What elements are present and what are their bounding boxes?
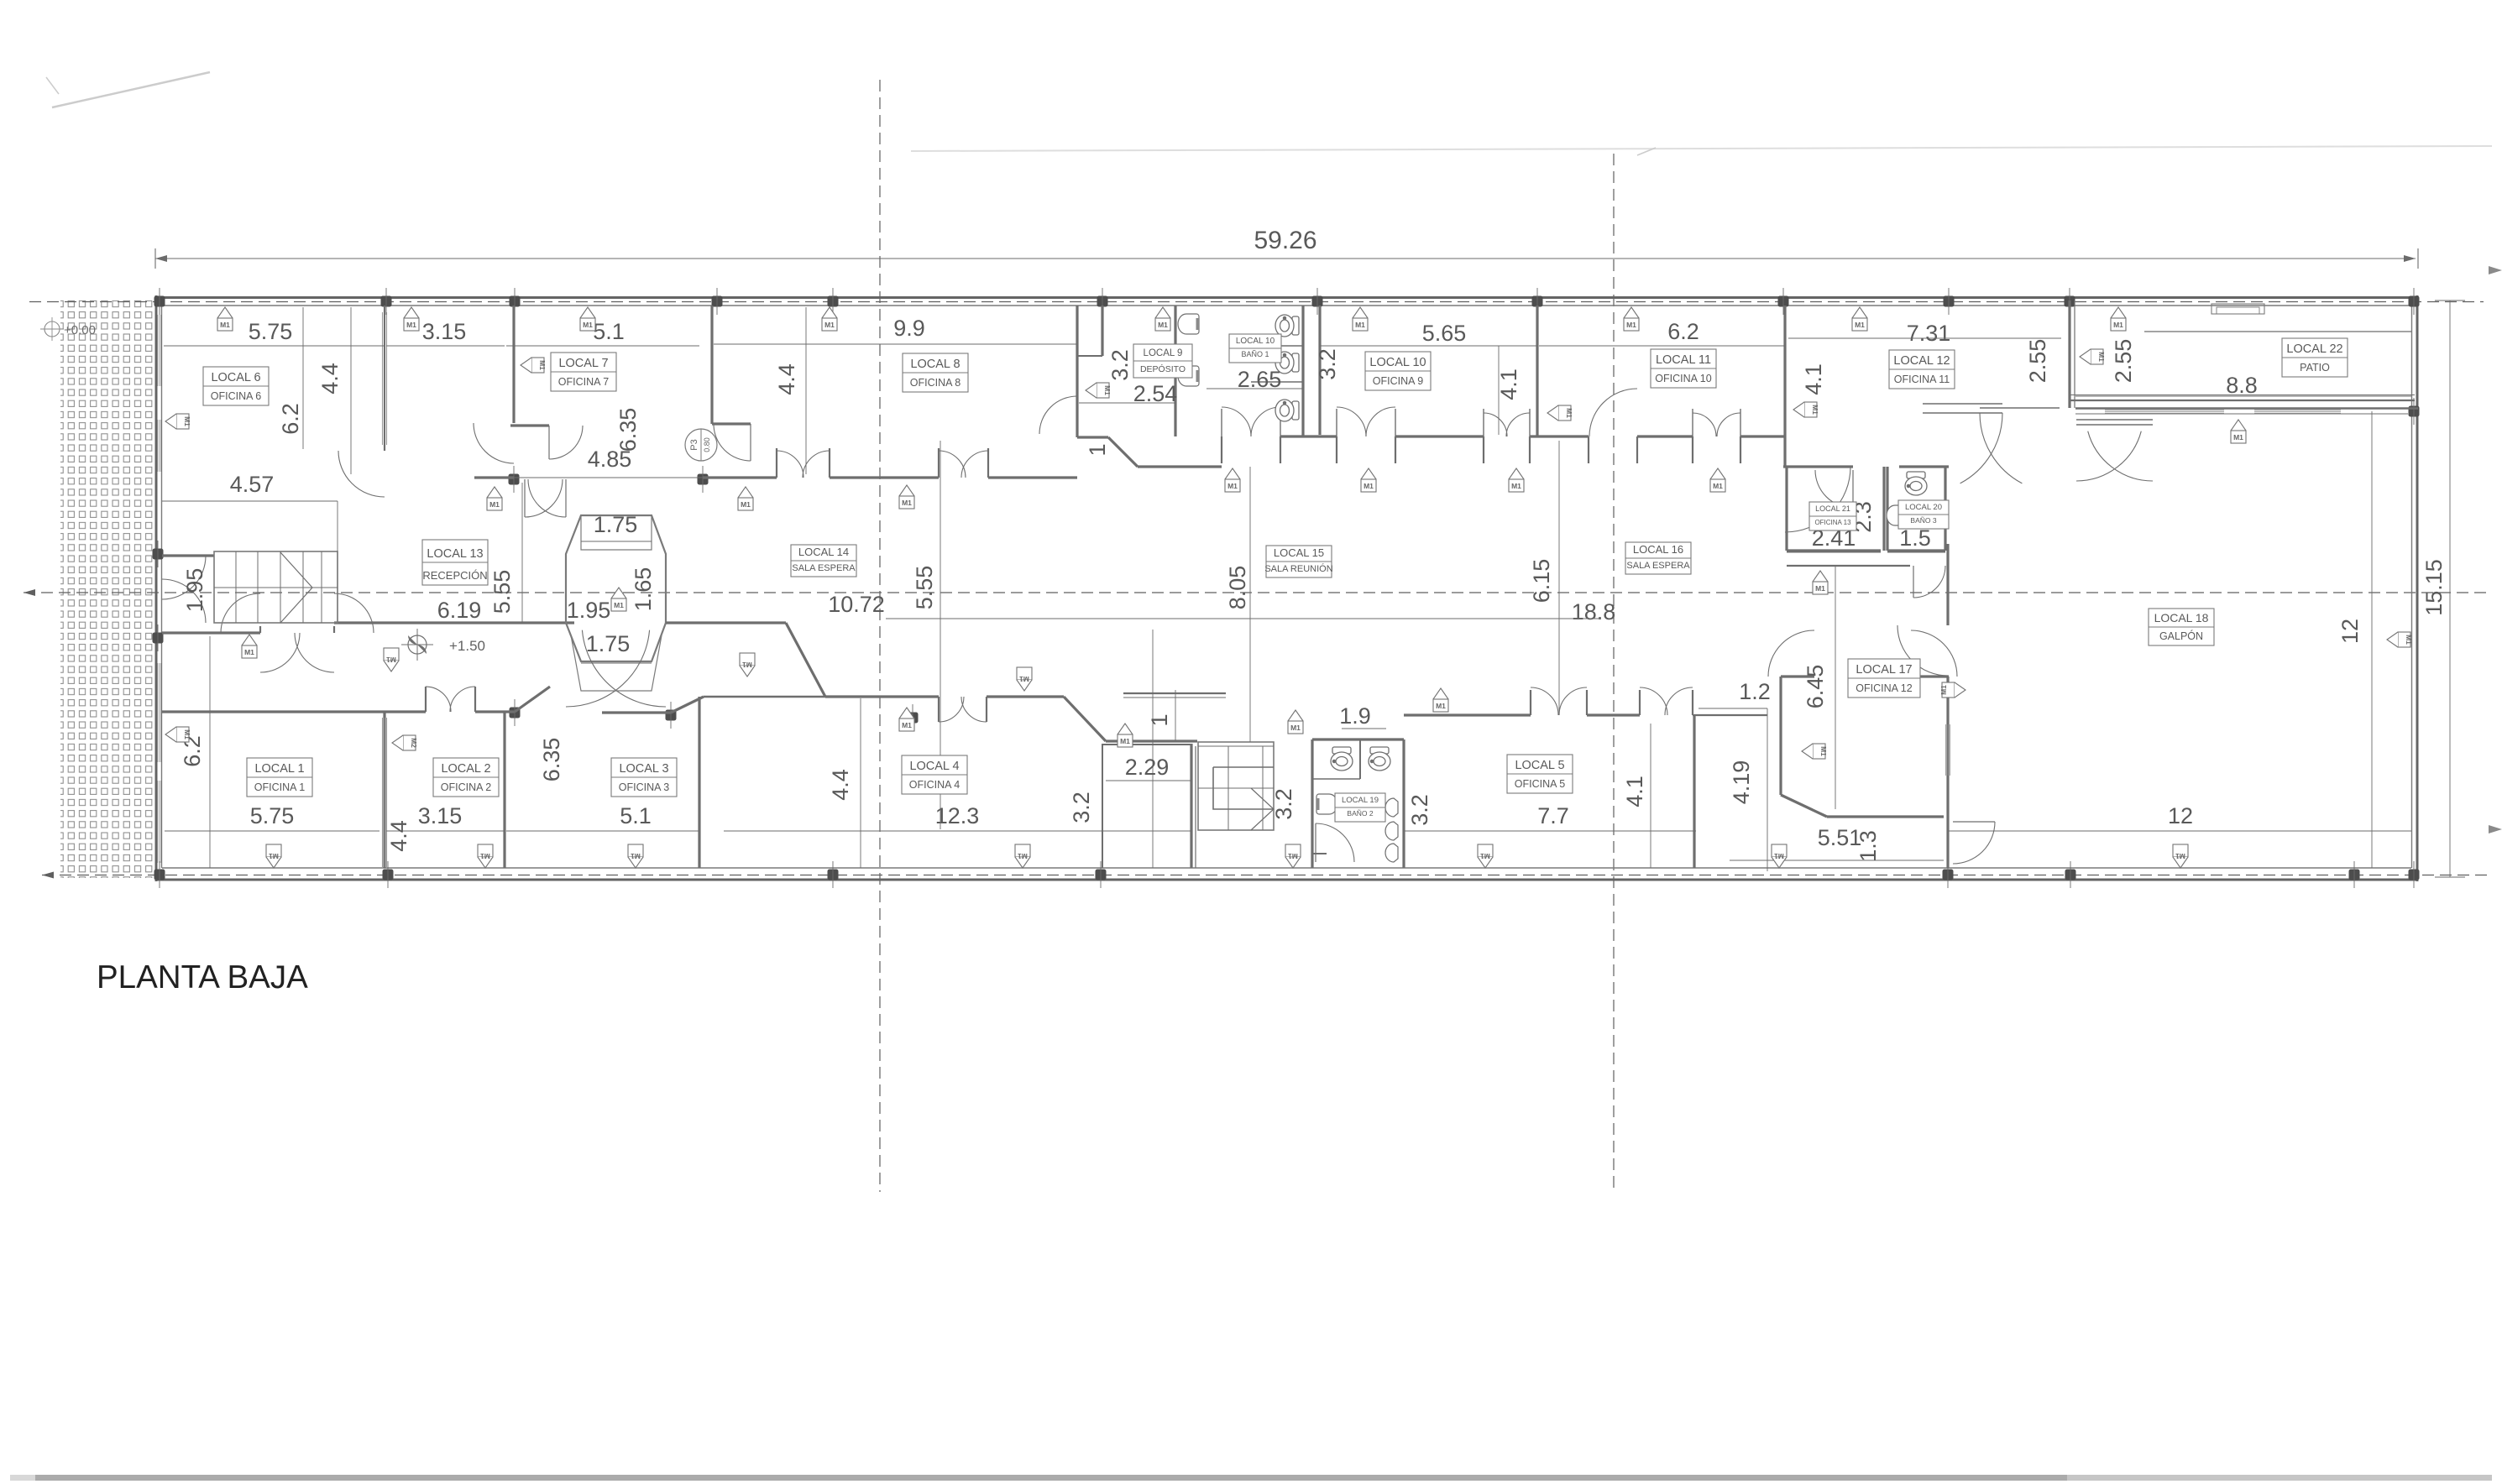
- svg-text:OFICINA 10: OFICINA 10: [1655, 373, 1711, 384]
- svg-text:OFICINA 9: OFICINA 9: [1373, 375, 1423, 387]
- svg-text:M1: M1: [1565, 408, 1573, 418]
- dim 18.8 line: [886, 618, 1600, 619]
- faint horizontal scuff line top-right: [911, 146, 2492, 151]
- svg-text:M1: M1: [183, 729, 191, 739]
- svg-text:4.57: 4.57: [230, 472, 275, 497]
- wall LOCAL 1 / LOCAL 2 with glazed double door: [383, 712, 385, 868]
- svg-text:M1: M1: [902, 721, 912, 729]
- dim ext line 6.2 bottom left: [209, 636, 211, 868]
- svg-text:4.4: 4.4: [828, 769, 853, 801]
- LOCAL 3 top wall: [704, 696, 825, 698]
- bano 1 toilets: [1275, 315, 1299, 337]
- wall LOCAL 3 / LOCAL 4: [698, 697, 700, 868]
- room label LOCAL 21 OFICINA 13: [1809, 502, 1856, 530]
- svg-text:4.85: 4.85: [588, 447, 632, 472]
- svg-text:M1: M1: [1774, 852, 1784, 860]
- door arcs corridor north wall: [1222, 407, 1251, 436]
- svg-text:7.7: 7.7: [1537, 803, 1569, 828]
- dim ext line 6.2 left top: [302, 307, 304, 449]
- svg-text:M1: M1: [489, 500, 500, 509]
- svg-text:OFICINA 11: OFICINA 11: [1894, 374, 1950, 385]
- bano1 shaft wall: [1318, 306, 1321, 435]
- room label LOCAL 5 OFICINA 5: [1507, 755, 1573, 793]
- room label LOCAL 6 OFICINA 6: [203, 367, 269, 405]
- room label LOCAL 3 OFICINA 3: [611, 758, 677, 797]
- dim ext line 4.4 left: [350, 307, 352, 474]
- dim line 4.85 along corridor: [514, 477, 703, 478]
- svg-text:M1: M1: [244, 648, 254, 656]
- svg-text:5.55: 5.55: [489, 570, 515, 614]
- svg-text:LOCAL 7: LOCAL 7: [558, 357, 608, 370]
- dim 5.51 line: [1730, 860, 1944, 861]
- diagonal wall jog to vestibule: [1064, 697, 1106, 741]
- door arcs strip entry to reception: [525, 479, 563, 517]
- vestibule right wall: [1190, 744, 1192, 868]
- svg-text:LOCAL 12: LOCAL 12: [1893, 354, 1950, 368]
- svg-text:0.80: 0.80: [703, 437, 711, 452]
- svg-text:LOCAL 10: LOCAL 10: [1369, 356, 1426, 369]
- svg-text:LOCAL 14: LOCAL 14: [798, 546, 849, 558]
- diagonal jog to LOCAL 3: [671, 697, 704, 713]
- entry door arcs at left wall: [162, 556, 206, 599]
- svg-text:M1: M1: [480, 852, 490, 860]
- room label LOCAL 18 GALPON: [2149, 609, 2214, 645]
- dim 15.15 line: [2449, 300, 2451, 877]
- dim line 8.05 vertical: [1152, 630, 1154, 868]
- wall from LOCAL17 down to bottom wall: [1946, 822, 1949, 868]
- corridor stub wall 1.2: [1693, 714, 1767, 716]
- svg-text:M1: M1: [2113, 321, 2123, 329]
- svg-text:M1: M1: [1511, 482, 1521, 490]
- svg-text:4.4: 4.4: [317, 363, 343, 395]
- door markers M1 west corridor strip: [487, 487, 502, 498]
- dim 4.19 line: [1767, 708, 1768, 871]
- svg-text:OFICINA 1: OFICINA 1: [254, 781, 305, 793]
- svg-text:M1: M1: [1290, 724, 1301, 732]
- LOCAL 17 chamfer: [1781, 795, 1827, 817]
- svg-text:LOCAL 19: LOCAL 19: [1342, 796, 1379, 805]
- svg-text:LOCAL 1: LOCAL 1: [254, 762, 304, 776]
- dim 2.54 line: [1079, 402, 1175, 404]
- svg-text:6.35: 6.35: [615, 408, 641, 452]
- stair 1 direction arrow: [280, 552, 312, 623]
- svg-text:1: 1: [1085, 443, 1110, 456]
- svg-text:5.75: 5.75: [249, 319, 293, 344]
- svg-text:LOCAL 11: LOCAL 11: [1656, 353, 1711, 367]
- svg-text:M1: M1: [1811, 405, 1819, 415]
- stair 1 block: [214, 551, 338, 623]
- corridor south wall at LOCAL 3/4: [825, 695, 939, 698]
- LOCAL 21 walls: [1785, 467, 1788, 551]
- svg-text:OFICINA 12: OFICINA 12: [1856, 682, 1912, 694]
- wall between LOCAL 6 and room 3.15 (glazed): [384, 306, 385, 451]
- svg-text:M1: M1: [824, 321, 835, 329]
- door arcs LOCAL 1/2 entries: [426, 687, 451, 712]
- bano 2 lower jamb: [1312, 853, 1327, 854]
- svg-text:+0.00: +0.00: [64, 323, 96, 337]
- door arcs into LOCAL 4: [939, 697, 964, 722]
- svg-text:OFICINA 2: OFICINA 2: [441, 781, 491, 793]
- svg-text:M1: M1: [220, 321, 230, 329]
- room label LOCAL 17 OFICINA 12: [1848, 659, 1920, 698]
- window marker M1 right wall galpon: [2398, 632, 2410, 647]
- door markers M1 corridor south side: [740, 653, 755, 666]
- LOCAL 21 door arc: [1815, 470, 1853, 508]
- M2 door marker: [403, 735, 416, 750]
- svg-text:M1: M1: [741, 500, 751, 509]
- room label LOCAL 13 RECEPCION: [422, 540, 488, 585]
- svg-text:LOCAL 21: LOCAL 21: [1815, 504, 1850, 513]
- svg-text:M1: M1: [614, 601, 624, 609]
- dim 1.9 line: [1342, 728, 1386, 729]
- patio double doors east pair into galpon: [2076, 419, 2153, 421]
- overall width dimension 59.26: [155, 258, 2416, 259]
- svg-text:1.3: 1.3: [1856, 830, 1881, 862]
- svg-text:1.9: 1.9: [1339, 703, 1371, 729]
- door arc LOCAL 7 entry: [549, 426, 583, 459]
- faint scuff marks top-left: [52, 72, 210, 107]
- svg-text:5.75: 5.75: [250, 803, 295, 828]
- svg-text:LOCAL 4: LOCAL 4: [909, 760, 959, 773]
- patio skylight rectangle: [2211, 304, 2264, 314]
- svg-text:RECEPCIÓN: RECEPCIÓN: [422, 569, 487, 582]
- svg-text:1.75: 1.75: [594, 512, 638, 537]
- wall between 3.15 room and LOCAL 7: [512, 306, 515, 423]
- BANO 3 walls: [1886, 467, 1888, 551]
- level datum +0.00: [44, 321, 60, 337]
- marker M1 local17: [1813, 744, 1825, 759]
- svg-text:M1: M1: [538, 360, 547, 370]
- patio bottom wall: [2070, 400, 2415, 401]
- door arc LOCAL 12 entry: [1785, 467, 1850, 532]
- structural column markers on axes: [154, 296, 165, 307]
- svg-text:M1: M1: [1120, 737, 1130, 745]
- room label LOCAL 14 SALA ESPERA: [791, 545, 856, 577]
- svg-text:M1: M1: [1480, 852, 1490, 860]
- LOCAL 1 top wall: [162, 710, 426, 713]
- svg-text:4.4: 4.4: [774, 363, 799, 395]
- LOCAL 17 left wall: [1779, 677, 1782, 795]
- svg-text:1.75: 1.75: [586, 631, 631, 656]
- svg-text:4.1: 4.1: [1801, 363, 1826, 395]
- patio left wall: [2068, 300, 2070, 408]
- door arc at 3.15 room wall: [474, 423, 514, 463]
- svg-text:M1: M1: [1713, 482, 1723, 490]
- LOCAL 1 front wall: [162, 631, 260, 634]
- wall between LOCAL 7 and LOCAL 8: [710, 306, 713, 424]
- svg-text:5.1: 5.1: [593, 319, 625, 344]
- svg-text:3.15: 3.15: [418, 803, 463, 828]
- deposito door arc: [1039, 396, 1077, 434]
- svg-text:12.3: 12.3: [935, 803, 980, 828]
- svg-text:M1: M1: [583, 321, 593, 329]
- svg-text:3.2: 3.2: [1107, 349, 1133, 381]
- room label LOCAL 4 OFICINA 4: [902, 755, 967, 794]
- marker M1 local 7 side wall: [531, 358, 544, 373]
- dim 1.75 upper line: [581, 541, 652, 542]
- dim 1.75 lower line: [581, 662, 652, 664]
- svg-text:1: 1: [1147, 713, 1172, 726]
- door arc at LOCAL 6 wall: [338, 451, 385, 497]
- vestibule bay upper trapezoid: [566, 515, 666, 623]
- window markers M1 left wall: [176, 414, 189, 429]
- svg-text:4.1: 4.1: [1622, 776, 1647, 807]
- marker M1 local12 side: [1804, 402, 1817, 417]
- svg-text:PATIO: PATIO: [2300, 362, 2330, 374]
- svg-text:3.2: 3.2: [1069, 792, 1094, 823]
- door markers M1 corridor north side: [1225, 468, 1240, 479]
- dim ext line 4.1 oficina9: [1498, 346, 1500, 435]
- svg-text:9.9: 9.9: [893, 316, 925, 341]
- svg-text:PLANTA BAJA: PLANTA BAJA: [97, 959, 308, 995]
- svg-text:OFICINA 7: OFICINA 7: [558, 376, 609, 388]
- gray band at bottom edge of sheet: [10, 1475, 2491, 1481]
- svg-text:5.65: 5.65: [1422, 321, 1467, 346]
- bano 1 sinks: [1178, 314, 1199, 334]
- room label LOCAL 10 BANO 1: [1229, 334, 1281, 363]
- svg-text:2.29: 2.29: [1125, 755, 1170, 780]
- room label LOCAL 20 BANO 3: [1898, 500, 1949, 529]
- svg-text:6.15: 6.15: [1529, 559, 1554, 604]
- svg-text:12: 12: [2168, 803, 2193, 828]
- svg-text:M1: M1: [1819, 746, 1828, 756]
- svg-text:OFICINA 3: OFICINA 3: [619, 781, 669, 793]
- wall OFICINA9/OFICINA10: [1536, 306, 1538, 436]
- svg-text:M1: M1: [2405, 635, 2413, 645]
- svg-text:OFICINA 4: OFICINA 4: [909, 779, 960, 791]
- dim 1.2 line: [1699, 708, 1767, 709]
- svg-text:M1: M1: [1364, 482, 1374, 490]
- BANO 3 toilet: [1905, 472, 1927, 495]
- upper corridor ledge wall: [1123, 692, 1226, 694]
- room label LOCAL 7 OFICINA 7: [551, 353, 616, 391]
- svg-text:M1: M1: [1939, 685, 1948, 695]
- galpon vertical dim 12: [2371, 411, 2373, 868]
- svg-text:6.45: 6.45: [1803, 665, 1828, 709]
- reception south wall: [334, 621, 574, 624]
- svg-text:P3: P3: [689, 439, 699, 450]
- svg-text:SALA ESPERA: SALA ESPERA: [792, 563, 856, 573]
- reception north wall: [162, 554, 214, 556]
- marker M1 patio south wall: [2231, 420, 2246, 431]
- east lobby door arc: [1913, 566, 1945, 598]
- galpon top wall with glazing: [2075, 407, 2418, 410]
- room label LOCAL 2 OFICINA 2: [433, 758, 499, 797]
- svg-text:BAÑO 3: BAÑO 3: [1910, 516, 1936, 525]
- room label LOCAL 11 OFICINA 10: [1651, 349, 1716, 388]
- svg-text:M1: M1: [1158, 321, 1168, 329]
- svg-text:LOCAL 10: LOCAL 10: [1236, 337, 1275, 346]
- door arcs LOCAL 8 wall: [777, 451, 803, 478]
- svg-text:LOCAL 20: LOCAL 20: [1905, 503, 1942, 512]
- corridor south wall east of vestibule: [666, 621, 786, 624]
- east lobby floor wall: [1787, 565, 1910, 567]
- svg-text:M1: M1: [1436, 702, 1446, 710]
- door markers M1 reception area: [384, 648, 399, 661]
- vestibule 2.29 left wall: [1102, 744, 1103, 868]
- vestibule bay lower trapezoid: [566, 623, 666, 661]
- svg-text:1.2: 1.2: [1739, 679, 1771, 704]
- svg-text:GALPÓN: GALPÓN: [2159, 630, 2203, 642]
- horizontal axis dashed line through bottom wall: [42, 875, 2492, 876]
- dim 6.45 line: [1835, 567, 1836, 809]
- svg-text:M1: M1: [902, 499, 912, 507]
- marker M1 deposito side: [1097, 383, 1109, 398]
- dim 5.55 line west: [521, 483, 523, 623]
- svg-text:M1: M1: [1103, 385, 1112, 395]
- svg-text:1.65: 1.65: [631, 567, 656, 612]
- room label LOCAL 12 OFICINA 11: [1889, 350, 1955, 389]
- LOCAL 7 south wall: [510, 424, 549, 426]
- dim ext line 4.4 mid: [805, 307, 807, 474]
- room label LOCAL 16 SALA ESPERA: [1625, 542, 1691, 574]
- vestibule top wall: [1106, 739, 1197, 742]
- svg-text:M1: M1: [386, 656, 396, 664]
- window markers M1 bottom wall: [266, 844, 281, 857]
- patio inner wall line: [2144, 331, 2411, 332]
- diagonal jog at LOCAL 2: [515, 687, 550, 712]
- bano 2 toilets: [1331, 747, 1353, 771]
- dim bottom line: [165, 830, 379, 832]
- svg-text:M1: M1: [1626, 321, 1636, 329]
- door tag P3 0.80: [685, 429, 717, 461]
- diagonal wall jog: [786, 623, 825, 697]
- svg-text:M1: M1: [1018, 852, 1028, 860]
- svg-text:8.05: 8.05: [1225, 566, 1250, 610]
- svg-text:M1: M1: [631, 852, 641, 860]
- room label LOCAL 22 PATIO: [2282, 338, 2348, 377]
- svg-text:LOCAL 13: LOCAL 13: [427, 547, 483, 561]
- bano 2 stall divider: [1359, 739, 1361, 779]
- svg-text:LOCAL 22: LOCAL 22: [2286, 342, 2342, 356]
- stair 2 block: [1198, 742, 1274, 830]
- svg-text:M1: M1: [2233, 433, 2243, 442]
- dim 4.57 line: [162, 500, 338, 502]
- LOCAL 17 right wall with glazing: [1946, 677, 1949, 822]
- svg-text:LOCAL 3: LOCAL 3: [619, 762, 668, 776]
- svg-text:OFICINA 8: OFICINA 8: [910, 377, 960, 389]
- svg-text:1.95: 1.95: [567, 598, 611, 623]
- building top wall: [155, 296, 2418, 299]
- door arc east of P3: [714, 424, 751, 461]
- LOCAL 8 south wall segments with double doors: [703, 476, 777, 478]
- window markers M1 top wall: [217, 307, 233, 318]
- corridor south wall east segment: [1404, 713, 1531, 716]
- svg-text:LOCAL 8: LOCAL 8: [910, 358, 960, 371]
- svg-text:6.19: 6.19: [437, 598, 482, 623]
- patio big double doors west pair: [1923, 403, 2002, 405]
- svg-text:LOCAL 18: LOCAL 18: [2154, 611, 2209, 624]
- dim line top offices: [164, 345, 385, 347]
- galpon horizontal dim 12: [1948, 830, 2411, 832]
- door jamb marks corridor north wall: [1221, 436, 1222, 463]
- deposito left wall step: [1077, 355, 1102, 357]
- svg-text:OFICINA 13: OFICINA 13: [1814, 519, 1851, 526]
- svg-text:SALA ESPERA: SALA ESPERA: [1626, 561, 1690, 571]
- entry flower door arcs LOCAL 1: [221, 593, 260, 633]
- vertical axis dashed line x=1048: [879, 80, 881, 1192]
- svg-text:LOCAL 17: LOCAL 17: [1856, 663, 1912, 677]
- svg-text:OFICINA 5: OFICINA 5: [1515, 778, 1565, 790]
- dim 4.1 line local5: [1650, 724, 1651, 868]
- dim 6.15 line: [1558, 441, 1560, 715]
- svg-text:4.19: 4.19: [1729, 760, 1754, 805]
- svg-text:59.26: 59.26: [1254, 227, 1316, 254]
- dim 2.65 line: [1207, 388, 1303, 389]
- svg-text:3.15: 3.15: [422, 319, 467, 344]
- door arc at galpon entry bottom: [1953, 822, 1995, 864]
- svg-text:M1: M1: [183, 416, 191, 426]
- dim 5.55 line east: [940, 441, 941, 829]
- svg-text:M1: M1: [269, 852, 279, 860]
- small arrow right margin: [2489, 266, 2502, 274]
- deposito lower diagonal wall: [1076, 306, 1078, 437]
- svg-text:M1: M1: [406, 321, 416, 329]
- svg-text:SALA REUNIÓN: SALA REUNIÓN: [1264, 563, 1332, 574]
- wall deposito/bano1: [1174, 306, 1176, 436]
- svg-text:LOCAL 5: LOCAL 5: [1515, 759, 1564, 772]
- svg-text:M1: M1: [1019, 675, 1029, 683]
- dim ext line 4.4 bottom: [860, 698, 861, 868]
- marker M1 east lobby: [1813, 571, 1828, 582]
- dim 2.41 line: [1787, 551, 1881, 553]
- svg-text:LOCAL 6: LOCAL 6: [211, 371, 260, 384]
- svg-text:OFICINA 6: OFICINA 6: [211, 390, 261, 402]
- svg-text:M1: M1: [1855, 321, 1865, 329]
- LOCAL 5 right wall: [1693, 715, 1695, 868]
- room label LOCAL 1 OFICINA 1: [247, 758, 312, 797]
- building right wall: [2416, 295, 2419, 881]
- svg-text:8.8: 8.8: [2226, 373, 2258, 398]
- svg-text:M1: M1: [742, 661, 752, 669]
- svg-text:BAÑO 1: BAÑO 1: [1241, 350, 1269, 358]
- deposito short wall: [1101, 306, 1103, 356]
- marker M1 oficina10 side wall: [1558, 405, 1571, 421]
- svg-text:5.55: 5.55: [912, 566, 937, 610]
- horizontal center axis dashed line: [24, 592, 2492, 593]
- building bottom wall: [162, 867, 2411, 869]
- door arcs LOCAL 5 entries: [1531, 687, 1558, 715]
- LOCAL 17 bottom wall: [1827, 815, 1944, 818]
- room label LOCAL 19 BANO 2: [1335, 793, 1385, 822]
- stair 2 inner landing: [1213, 767, 1274, 809]
- LOCAL 12 south wall: [1783, 465, 1853, 468]
- LOCAL 2 top wall east: [602, 711, 671, 713]
- building left wall with window bands: [155, 295, 158, 881]
- door leaves corridor north wall: [1221, 409, 1222, 436]
- bano 1 stall dividers: [1251, 345, 1303, 347]
- dim line vertical through stair 2: [1249, 467, 1251, 742]
- svg-text:15.15: 15.15: [2421, 559, 2447, 616]
- svg-text:2.65: 2.65: [1238, 367, 1282, 392]
- bano 2 sink: [1316, 794, 1337, 814]
- svg-text:7.31: 7.31: [1907, 321, 1951, 346]
- bano 2 walls: [1311, 739, 1313, 868]
- door leaves LOCAL 8 wall: [776, 448, 777, 478]
- svg-text:18.8: 18.8: [1572, 599, 1616, 624]
- dim 1 line corridor: [1175, 690, 1176, 741]
- svg-text:M1: M1: [1227, 482, 1238, 490]
- vertical axis dashed line x=1922: [1613, 154, 1615, 1192]
- LOCAL 17 top wall segments with door arcs: [1781, 675, 1814, 677]
- svg-text:M1: M1: [1355, 321, 1365, 329]
- room label LOCAL 15 SALA REUNION: [1266, 546, 1332, 577]
- svg-text:4.4: 4.4: [386, 820, 411, 852]
- svg-text:5.1: 5.1: [620, 803, 652, 828]
- room label LOCAL 9 DEPOSITO: [1133, 344, 1192, 378]
- svg-text:LOCAL 9: LOCAL 9: [1144, 348, 1183, 358]
- room label LOCAL 10 OFICINA 9: [1365, 352, 1431, 390]
